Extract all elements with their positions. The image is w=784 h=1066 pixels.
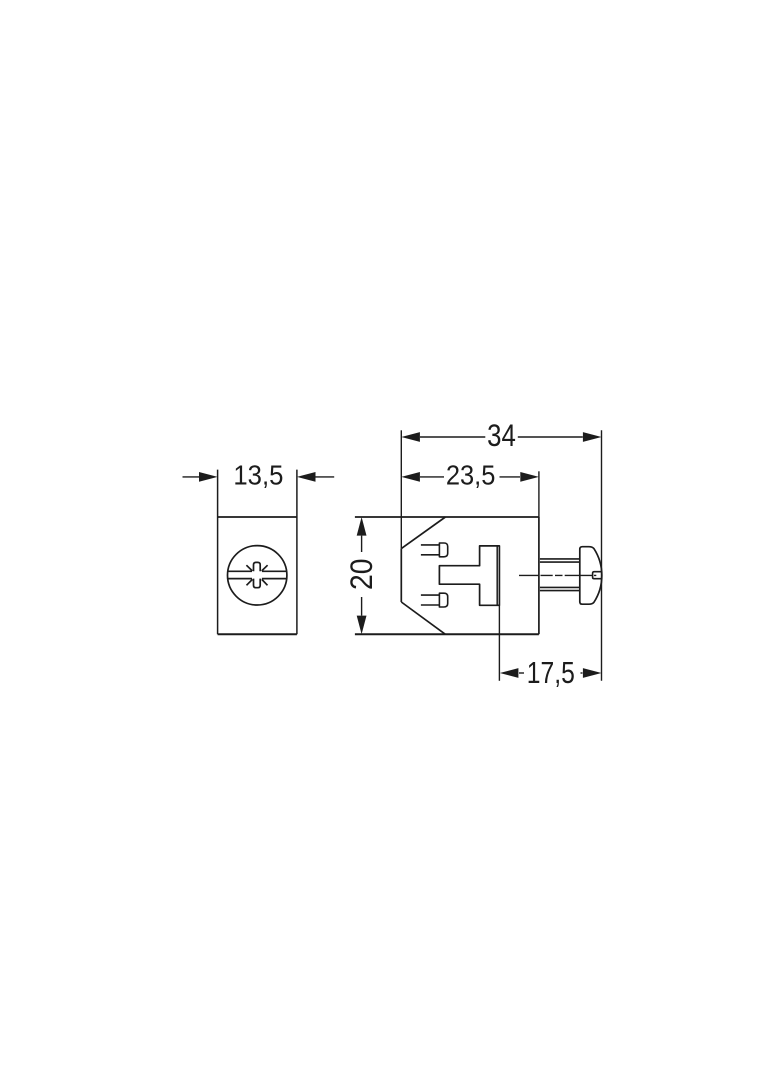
dim 34 line right segment [518,436,583,438]
pozidriv tick lower-left [247,579,253,585]
pozidriv tick lower-right [262,579,268,585]
screw head outline [580,547,602,605]
upper pin line 1 [421,544,440,546]
screw thread inner lower [540,586,580,588]
lower pin line 1 [421,594,440,596]
right extension line for 34 and 17,5 [601,430,603,681]
screw thread outer upper [540,558,580,560]
body left edge [400,549,402,602]
svg-text:17,5: 17,5 [527,656,575,690]
top-left chamfer [401,517,445,549]
front view bottom edge [218,633,297,635]
dim 17,5 left arrowhead [500,668,519,678]
slot lower chord line left part [228,578,252,580]
body bottom edge with 20-dim extension [355,633,539,635]
dim 20 top arrowhead [357,517,367,536]
dim 17,5 right arrowhead [583,668,602,678]
dim 13,5 right arrowhead [297,472,316,482]
dim 23,5 right arrowhead [520,472,539,482]
T-slot outline [439,546,499,605]
screw thread inner upper [540,561,580,563]
dim 23,5 line right segment [500,476,521,478]
screw slot bracket [593,572,602,579]
T-slot inner double line [496,546,498,605]
left extension line for 34 and 23,5 [400,430,402,548]
screw head circle [228,546,287,605]
dim 23,5 left arrowhead [401,472,420,482]
svg-text:34: 34 [487,417,516,453]
slot upper chord line right part [262,570,287,572]
lower pin line 2 [421,604,440,606]
svg-text:23,5: 23,5 [446,459,496,491]
dim 17,5 line left segment [519,672,524,674]
center line dash-dot [519,574,596,576]
front view right side / extension line [296,470,298,635]
slot upper chord line left part [228,570,252,572]
body top edge with 20-dim extension [355,516,539,518]
extension line for 17,5 below T-slot [498,605,500,681]
lower pin cap [439,593,447,607]
front view left side / extension line [217,470,219,635]
upper pin cap [439,543,447,557]
dim 13,5 right tail [316,476,335,478]
pozidriv cross top stub [254,562,261,571]
dim 20 bottom arrowhead [357,616,367,635]
dim 23,5 line left segment [420,476,444,478]
pozidriv tick upper-left [246,565,252,571]
front view top edge [218,516,297,518]
svg-text:13,5: 13,5 [233,459,283,491]
dim 34 right arrowhead [583,432,602,442]
pozidriv cross bottom stub [254,579,261,588]
dim 13,5 left arrowhead [199,472,218,482]
dim 20 line lower segment [361,597,363,616]
upper pin line 2 [421,554,440,556]
bottom-left chamfer [401,602,445,634]
dim 17,5 line right segment [581,672,583,674]
dim 34 line left segment [420,436,485,438]
dim 34 left arrowhead [401,432,420,442]
screw thread outer lower [540,590,580,592]
body right edge extension up for 23,5 [538,471,540,517]
dim 20 line upper segment [361,536,363,552]
body right edge [538,517,540,634]
dim 13,5 left tail [183,476,200,478]
slot lower chord line right part [262,578,287,580]
pozidriv tick upper-right [262,565,268,571]
svg-text:20: 20 [343,558,379,590]
